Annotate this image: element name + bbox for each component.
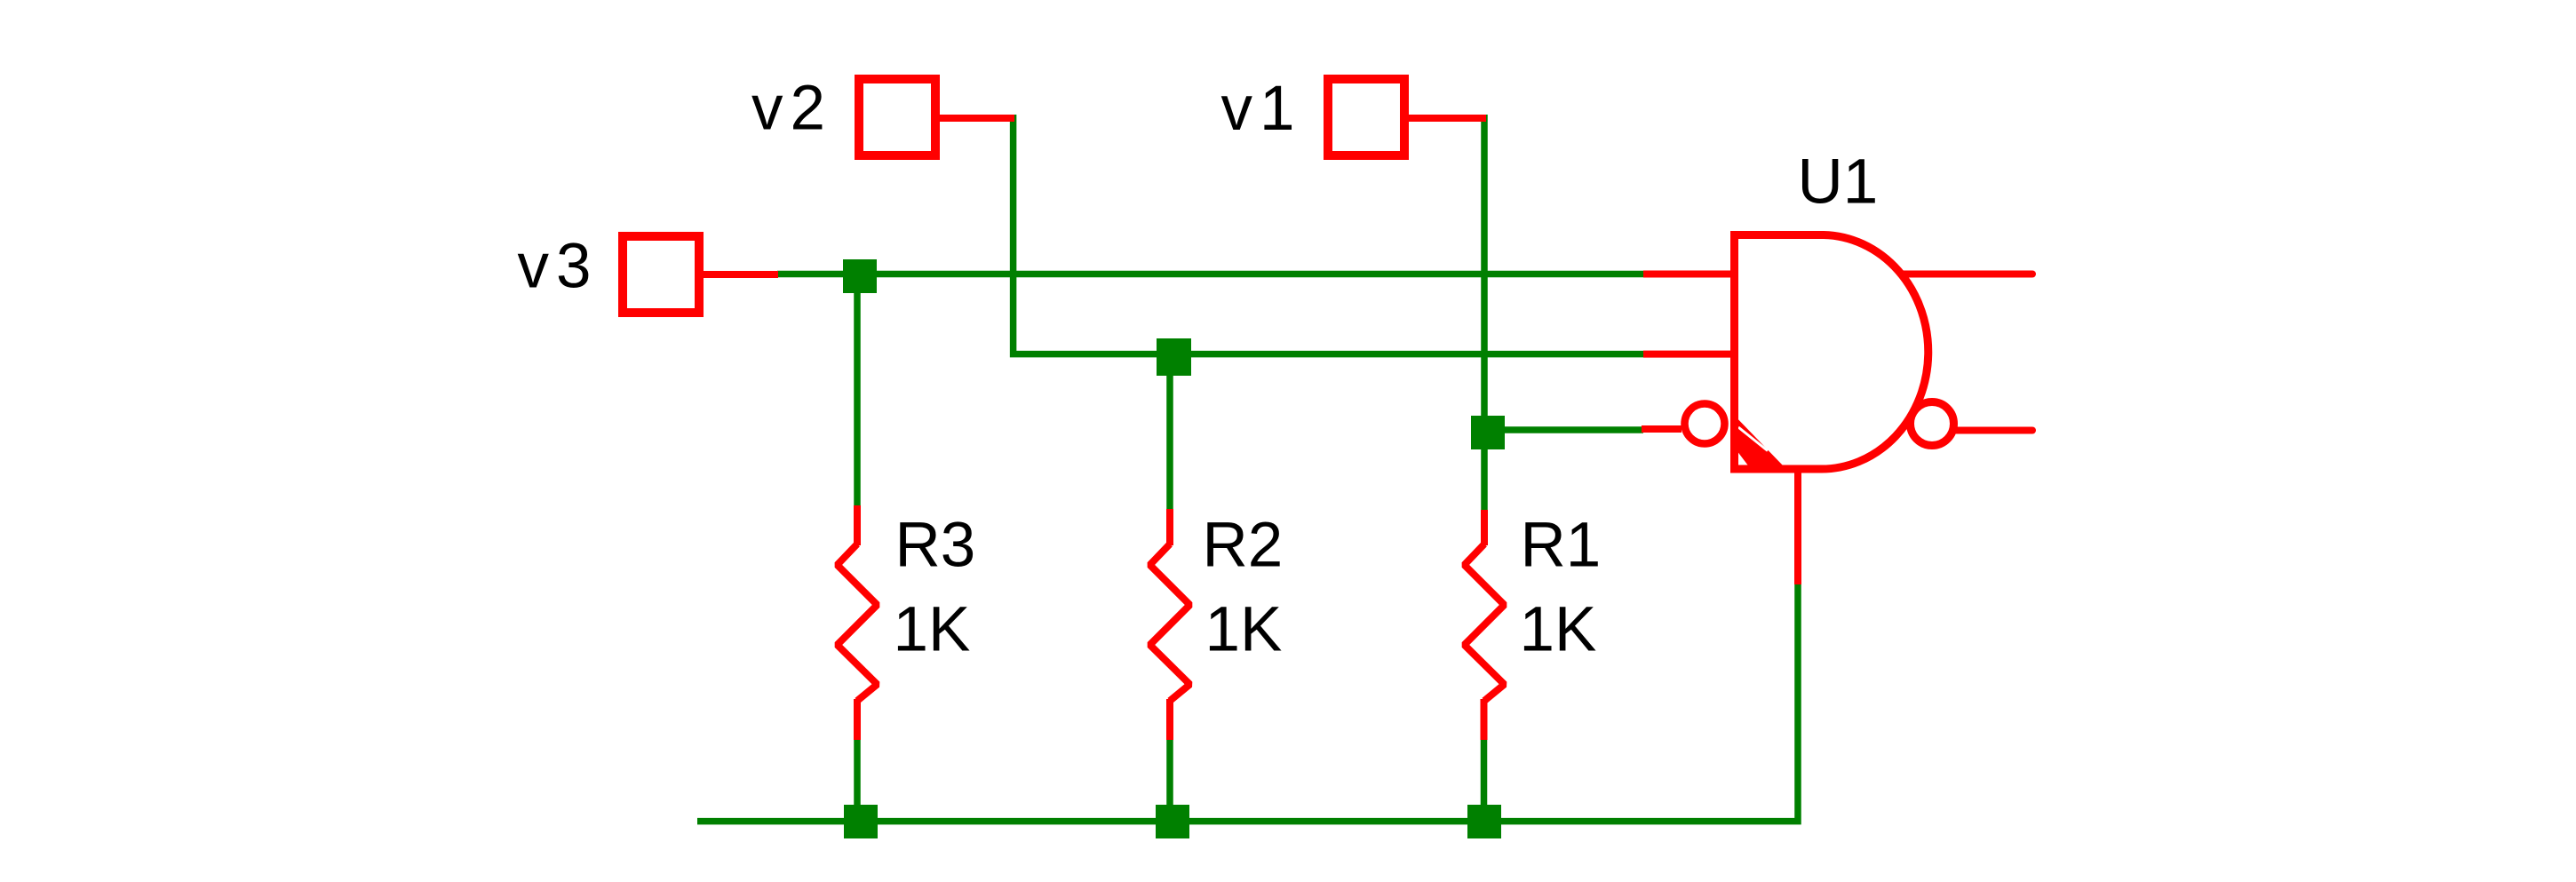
svg-text:v3: v3 — [518, 232, 599, 302]
svg-text:1K: 1K — [894, 595, 971, 665]
svg-text:1K: 1K — [1520, 595, 1597, 665]
svg-text:1K: 1K — [1205, 595, 1283, 665]
svg-text:v1: v1 — [1221, 74, 1302, 144]
svg-text:R3: R3 — [895, 511, 976, 581]
svg-text:R1: R1 — [1521, 511, 1602, 581]
svg-text:U1: U1 — [1798, 147, 1879, 218]
svg-text:R2: R2 — [1203, 511, 1284, 581]
svg-text:v2: v2 — [751, 74, 832, 144]
